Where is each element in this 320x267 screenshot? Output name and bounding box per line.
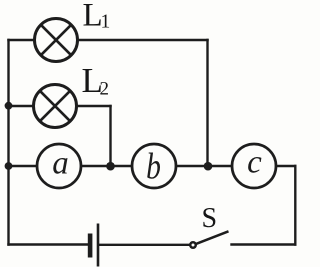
svg-text:a: a (52, 146, 69, 182)
switch S pivot (190, 242, 196, 248)
wire a to b (81, 165, 132, 167)
wire c to right corner (276, 165, 295, 167)
svg-text:b: b (146, 146, 161, 187)
wire switch to bottom-right corner (232, 243, 296, 245)
lamp L1 (35, 19, 78, 62)
node dot between b and c (204, 162, 213, 171)
battery negative plate (short thick) (88, 234, 93, 258)
wire left to ammeter a (9, 165, 38, 167)
wire bottom-left to battery (9, 243, 88, 245)
svg-text:2: 2 (100, 79, 110, 100)
ammeter b (132, 144, 176, 188)
battery positive plate (long thin) (97, 224, 100, 267)
wire left to L2 (9, 105, 34, 107)
wire L2 branch vertical down to node between a and b (109, 106, 111, 166)
ammeter a (37, 144, 81, 188)
wire L2 to corner (77, 105, 111, 107)
ammeter c (232, 144, 276, 188)
svg-text:S: S (202, 203, 218, 234)
lamp L2 (34, 85, 77, 128)
svg-text:1: 1 (101, 12, 111, 33)
wire battery to switch (100, 244, 190, 246)
wire top-left to L1 (9, 39, 35, 41)
switch S blade (196, 231, 228, 244)
wire top-right vertical down to node between b and c (206, 40, 208, 166)
node dot between a and b (106, 162, 115, 171)
wire L1 to top-right corner (78, 39, 208, 41)
wire b to c (176, 165, 232, 167)
wire right vertical (294, 166, 296, 245)
svg-text:c: c (247, 145, 262, 181)
node dot left/middle-row junction (5, 162, 13, 170)
wire left vertical (7, 40, 9, 245)
node dot left/L2 junction (5, 102, 13, 110)
